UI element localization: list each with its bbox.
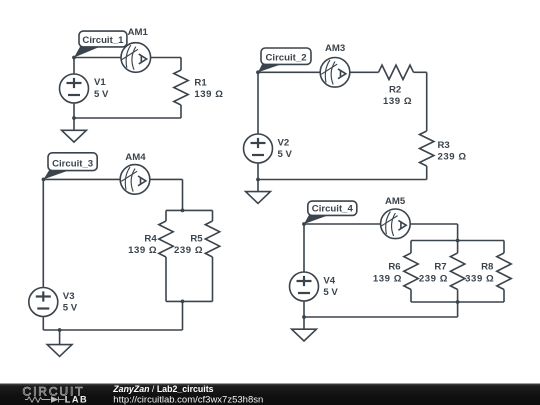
svg-text:239 Ω: 239 Ω [438, 152, 467, 163]
svg-text:V2: V2 [278, 138, 290, 149]
svg-text:AM4: AM4 [125, 152, 146, 163]
svg-text:R5: R5 [190, 233, 203, 244]
svg-text:LAB: LAB [65, 394, 88, 404]
svg-text:R8: R8 [481, 262, 494, 273]
svg-text:139 Ω: 139 Ω [383, 96, 412, 107]
svg-text:Circuit_4: Circuit_4 [312, 203, 354, 214]
svg-text:5 V: 5 V [63, 303, 78, 314]
svg-text:239 Ω: 239 Ω [174, 245, 203, 256]
svg-text:R4: R4 [144, 233, 157, 244]
svg-text:5 V: 5 V [323, 287, 338, 298]
svg-text:R7: R7 [434, 262, 446, 273]
svg-text:AM5: AM5 [385, 196, 406, 207]
svg-text:R1: R1 [194, 77, 207, 88]
svg-text:AM1: AM1 [128, 27, 149, 38]
svg-text:V1: V1 [94, 77, 106, 88]
svg-text:http://circuitlab.com/cf3wx7z5: http://circuitlab.com/cf3wx7z53h8sn [113, 394, 263, 405]
svg-text:139 Ω: 139 Ω [194, 89, 223, 100]
svg-text:Circuit_3: Circuit_3 [52, 159, 93, 170]
svg-text:AM3: AM3 [325, 43, 345, 54]
svg-text:Circuit_2: Circuit_2 [265, 52, 306, 63]
svg-text:V4: V4 [323, 276, 335, 287]
svg-text:139 Ω: 139 Ω [128, 245, 157, 256]
svg-text:239 Ω: 239 Ω [419, 273, 448, 284]
svg-text:R6: R6 [388, 262, 400, 273]
svg-text:5 V: 5 V [278, 149, 293, 160]
svg-text:5 V: 5 V [94, 89, 109, 100]
svg-text:V3: V3 [63, 291, 75, 302]
svg-text:Circuit_1: Circuit_1 [82, 35, 124, 46]
svg-text:ZanyZan / Lab2_circuits: ZanyZan / Lab2_circuits [112, 384, 213, 394]
svg-text:R2: R2 [389, 85, 401, 96]
svg-text:339 Ω: 339 Ω [465, 273, 494, 284]
svg-text:R3: R3 [438, 140, 450, 151]
svg-text:139 Ω: 139 Ω [373, 273, 402, 284]
